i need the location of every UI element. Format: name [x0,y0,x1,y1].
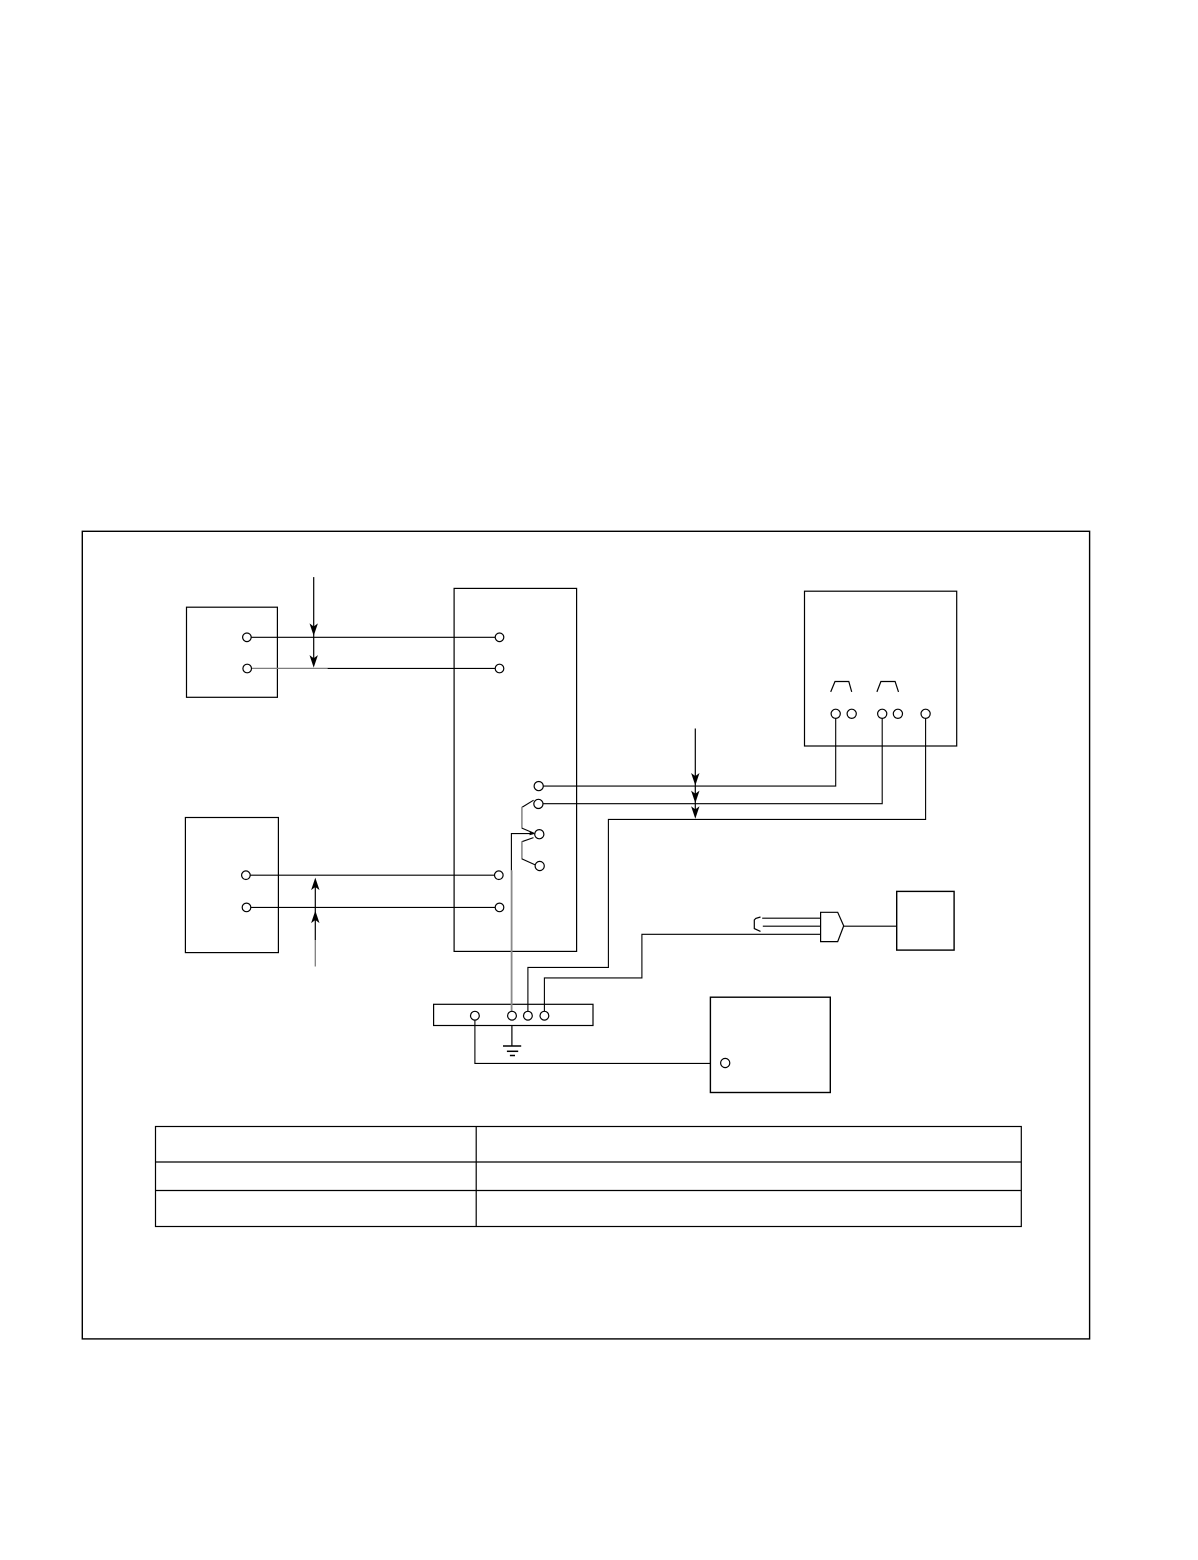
down arrow pair shaft (top left) [313,577,315,659]
wire switch common vertical gray to bar B2 [511,870,513,1011]
wire bar B4 riser to glow plug [544,934,820,1011]
glow plug element top line [762,917,820,919]
ground symbol under bar [503,1026,521,1056]
fuse symbol F1 in box D [831,682,852,692]
box G (bottom right unit) [710,997,830,1092]
switch lever S2-S3 [522,800,534,807]
outer diagram frame [82,531,1089,1339]
bar terminal B1 [471,1011,480,1020]
fuse box pin C5 [921,709,930,718]
switch arrowhead at S3 [530,831,536,835]
fuse box pin C2 [847,709,856,718]
box C (glow plug unit) [897,891,954,950]
glow plug body [821,912,844,941]
connector box A (top left) [187,607,278,697]
down arrowhead 1 [310,623,318,636]
wire glow plug to box C [844,925,897,927]
switch terminal S2 [534,799,543,808]
wire A1-B1 [251,636,495,638]
wire net3: fuse box pin C5 down, left, down to bar B3 [528,718,926,1011]
terminal A1 [243,633,252,642]
fuse symbol F2 in box D [877,682,899,692]
mid arrowhead 3 [691,806,699,819]
wire bar B1 to box G [475,1020,711,1063]
connector box B (center tall) [454,588,576,951]
switch lever S3-S4 [522,838,534,842]
terminal B3 [495,871,504,880]
mid triple arrow shaft [694,729,696,813]
bar terminal B2 [508,1011,517,1020]
terminal E2 [242,903,251,912]
wire A2-B2 gray segment [251,667,328,669]
connector box D (top right, fuse box) [805,591,957,746]
bar terminal B4 [540,1011,549,1020]
up arrowhead 1 [311,878,319,891]
table [156,1127,1022,1227]
connector box E (bottom left) [185,818,278,953]
terminal B2 [495,664,504,673]
switch terminal S1 [534,782,543,791]
down arrowhead 2 [310,655,318,668]
fuse box pin C3 [878,709,887,718]
mid arrowhead 2 [691,791,699,804]
box G terminal [721,1058,730,1067]
terminal A2 [243,664,252,673]
up arrowhead 2 [311,911,319,924]
terminal B1 [495,633,504,642]
wire E2-B4 [250,906,495,908]
wire A2-B2 black segment [328,667,496,669]
wire switch common horizontal [511,834,530,871]
wire S1 to fuse box pin C1 [543,718,835,786]
terminal B4 [495,903,504,912]
up arrow pair shaft (bottom left) black part [314,887,316,940]
switch terminal S4 [535,861,544,870]
wire E1-B3 [250,874,495,876]
up arrow pair shaft gray part [314,940,316,967]
switch terminal S3 [535,830,544,839]
fuse box pin C1 [831,709,840,718]
terminal E1 [242,871,251,880]
bar terminal B3 [524,1011,533,1020]
wire S2 to fuse box pin C3 [543,718,882,803]
mid arrowhead 1 [691,773,699,786]
glow plug element mid line [763,925,821,927]
fuse box pin C4 [893,709,902,718]
glow plug tip bracket [754,917,760,931]
terminal bar F [434,1004,593,1025]
